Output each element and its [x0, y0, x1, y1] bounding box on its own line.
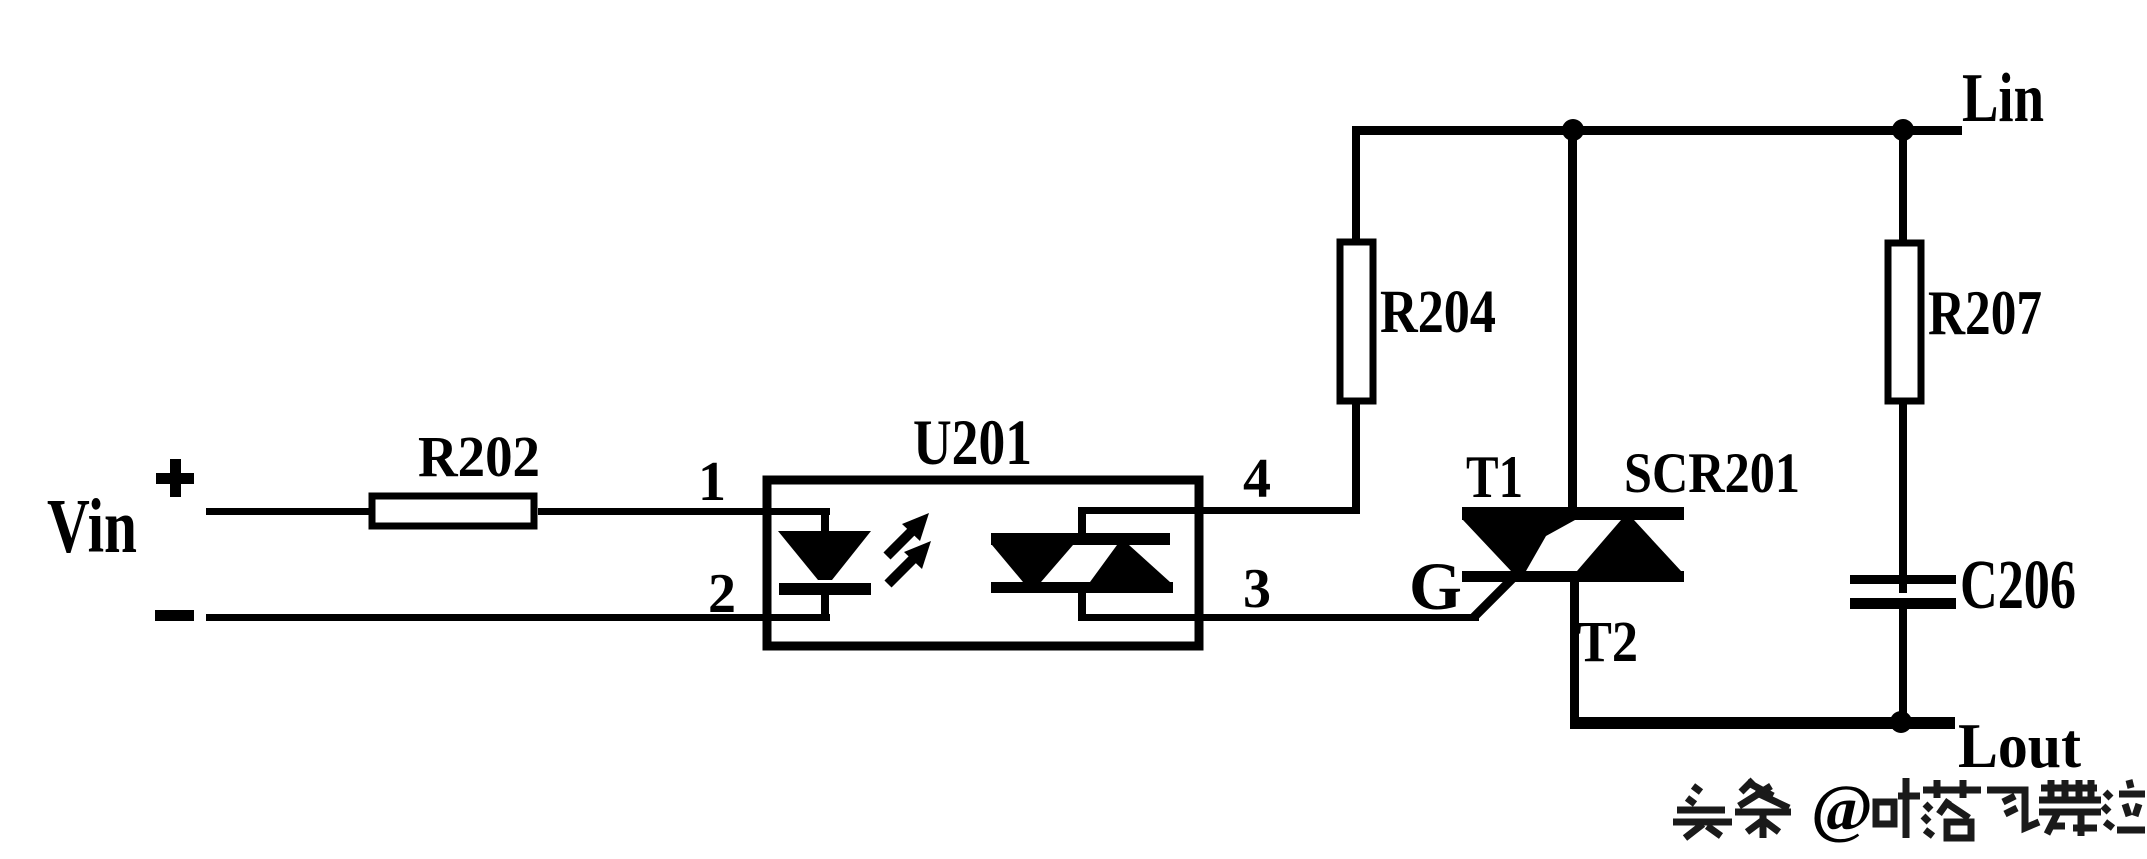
LED triangle — [778, 531, 871, 580]
watermark 头 — [1673, 786, 1732, 838]
photo-triac bottom bar — [991, 582, 1173, 593]
Vin plus terminal — [156, 459, 194, 497]
wire pin 3 to gate — [1078, 614, 1479, 621]
optocoupler U201 box — [767, 480, 1199, 646]
capacitor C206 bottom plate — [1850, 598, 1956, 609]
svg-text:G: G — [1409, 548, 1462, 624]
light arrow upper — [887, 513, 929, 556]
LED cathode bar — [779, 583, 871, 595]
junction dot T1/Lin — [1562, 119, 1584, 141]
capacitor C206 top plate — [1850, 575, 1956, 584]
wire C206 to Lout — [1899, 609, 1907, 723]
resistor R207 — [1888, 243, 1921, 401]
wire minus input — [206, 614, 830, 621]
wire pin4 corner up to R204 — [1352, 404, 1360, 514]
svg-text:U201: U201 — [913, 407, 1032, 479]
light arrow lower — [888, 541, 931, 584]
watermark 飞 — [1987, 790, 2039, 828]
wire T1 vertical — [1568, 130, 1577, 515]
svg-text:R207: R207 — [1928, 277, 2042, 348]
svg-text:4: 4 — [1243, 448, 1271, 510]
svg-text:@: @ — [1811, 772, 1873, 845]
photo-triac top stub — [1078, 507, 1086, 537]
svg-text:Lout: Lout — [1958, 711, 2081, 781]
photo-triac top bar — [991, 533, 1170, 545]
watermark 条 — [1735, 780, 1791, 838]
wire R204 top to Lin — [1352, 126, 1360, 242]
junction dot R207/Lin — [1892, 119, 1914, 141]
triac SCR201 right triangle — [1577, 520, 1681, 571]
wire plus input — [206, 508, 371, 515]
svg-text:1: 1 — [698, 451, 726, 513]
svg-text:R202: R202 — [418, 424, 540, 489]
svg-text:SCR201: SCR201 — [1624, 442, 1800, 505]
svg-text:3: 3 — [1243, 558, 1271, 620]
Vin minus terminal — [155, 610, 194, 621]
resistor R202 — [372, 496, 534, 526]
wire Lin line — [1352, 126, 1962, 135]
triac SCR201 bottom bar — [1462, 571, 1684, 582]
wire T2 vertical — [1570, 582, 1579, 727]
svg-text:T1: T1 — [1466, 444, 1523, 510]
svg-text:Vin: Vin — [47, 483, 137, 569]
photo-triac left triangle — [992, 545, 1073, 582]
wire R207 to C206 — [1899, 401, 1907, 593]
LED cathode stub — [821, 594, 829, 618]
watermark 叶 — [1876, 778, 1920, 838]
watermark 泣 — [2103, 780, 2145, 830]
svg-text:Lin: Lin — [1962, 60, 2044, 137]
watermark 落 — [1923, 780, 1981, 838]
photo-triac right triangle — [1090, 545, 1170, 582]
svg-text:2: 2 — [708, 563, 736, 625]
wire Lin to R207 — [1899, 130, 1907, 242]
triac SCR201 top bar — [1462, 507, 1684, 520]
photo-triac bottom stub — [1078, 588, 1086, 621]
wire Lout line — [1570, 717, 1955, 729]
wire pin 4 — [1078, 507, 1358, 514]
triac SCR201 left triangle — [1463, 520, 1575, 571]
junction dot C206/Lout — [1890, 711, 1912, 733]
svg-text:T2: T2 — [1577, 609, 1638, 674]
watermark 舞 — [2039, 780, 2101, 836]
gate lead diagonal — [1473, 579, 1512, 618]
wire R202 to pin 1 — [538, 508, 830, 515]
LED anode stub — [821, 508, 829, 537]
svg-text:R204: R204 — [1380, 279, 1496, 346]
resistor R204 — [1340, 242, 1373, 401]
svg-text:C206: C206 — [1960, 547, 2076, 624]
